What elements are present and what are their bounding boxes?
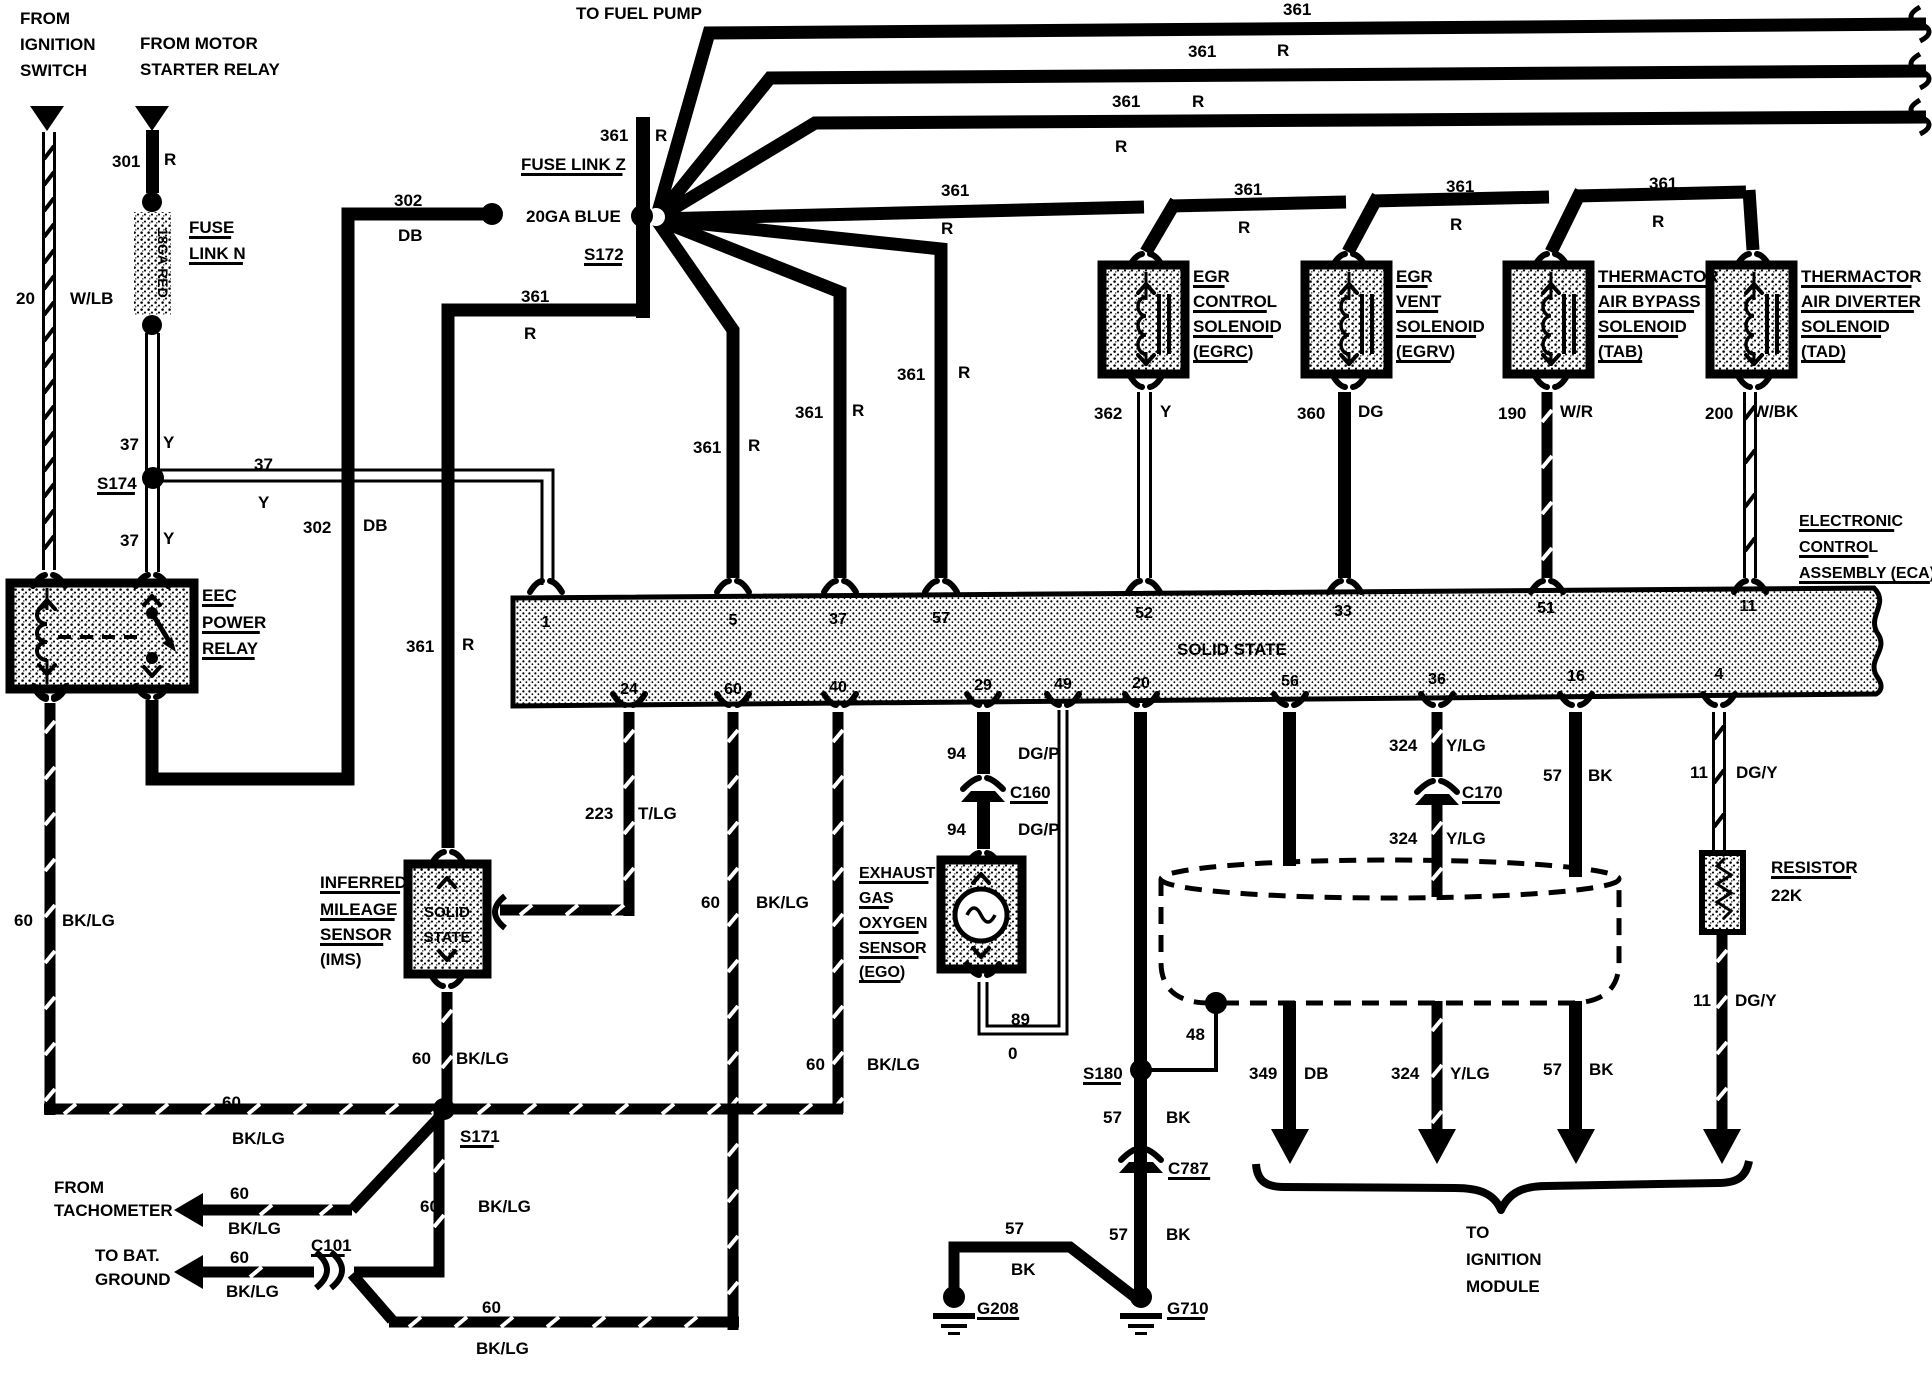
svg-text:DG: DG	[1358, 402, 1384, 421]
svg-text:361: 361	[1649, 174, 1677, 193]
svg-text:EEC: EEC	[202, 586, 237, 605]
svg-text:RESISTOR: RESISTOR	[1771, 858, 1858, 877]
svg-text:THERMACTOR: THERMACTOR	[1598, 267, 1719, 286]
svg-text:29: 29	[974, 677, 992, 694]
svg-text:SOLENOID: SOLENOID	[1801, 317, 1890, 336]
svg-text:361: 361	[406, 637, 434, 656]
svg-text:49: 49	[1054, 676, 1072, 693]
svg-text:BK/LG: BK/LG	[228, 1219, 281, 1238]
svg-text:(EGRV): (EGRV)	[1396, 342, 1455, 361]
svg-text:Y: Y	[1160, 402, 1172, 421]
svg-text:OXYGEN: OXYGEN	[859, 915, 927, 932]
svg-text:GAS: GAS	[859, 890, 894, 907]
svg-text:VENT: VENT	[1396, 292, 1442, 311]
svg-text:SOLENOID: SOLENOID	[1193, 317, 1282, 336]
svg-text:FROM MOTOR: FROM MOTOR	[140, 34, 258, 53]
svg-text:360: 360	[1297, 404, 1325, 423]
svg-text:R: R	[1192, 92, 1204, 111]
svg-text:S172: S172	[584, 245, 624, 264]
svg-text:DG/P: DG/P	[1018, 820, 1060, 839]
svg-text:37: 37	[120, 531, 139, 550]
svg-text:BK: BK	[1011, 1260, 1036, 1279]
svg-text:52: 52	[1135, 605, 1153, 622]
svg-text:BK/LG: BK/LG	[226, 1282, 279, 1301]
svg-text:SENSOR: SENSOR	[859, 940, 927, 957]
svg-text:56: 56	[1281, 673, 1299, 690]
svg-text:R: R	[1115, 137, 1127, 156]
svg-text:37: 37	[254, 455, 273, 474]
svg-text:57: 57	[1103, 1108, 1122, 1127]
svg-text:STATE: STATE	[424, 929, 471, 946]
svg-text:R: R	[958, 363, 970, 382]
svg-text:361: 361	[600, 126, 628, 145]
svg-text:361: 361	[1188, 42, 1216, 61]
svg-text:G208: G208	[977, 1299, 1019, 1318]
svg-text:W/LB: W/LB	[70, 289, 113, 308]
svg-text:DG/Y: DG/Y	[1736, 763, 1778, 782]
svg-text:60: 60	[701, 893, 720, 912]
svg-text:20: 20	[16, 289, 35, 308]
svg-text:SOLENOID: SOLENOID	[1396, 317, 1485, 336]
svg-text:1: 1	[542, 614, 551, 631]
svg-text:361: 361	[897, 365, 925, 384]
svg-text:S180: S180	[1083, 1064, 1123, 1083]
svg-text:(TAD): (TAD)	[1801, 342, 1846, 361]
svg-text:BK/LG: BK/LG	[478, 1197, 531, 1216]
svg-text:BK/LG: BK/LG	[756, 893, 809, 912]
svg-text:R: R	[1277, 41, 1289, 60]
svg-text:C101: C101	[311, 1236, 352, 1255]
svg-text:Y: Y	[163, 433, 175, 452]
svg-text:(IMS): (IMS)	[320, 950, 362, 969]
svg-text:IGNITION: IGNITION	[1466, 1250, 1542, 1269]
svg-text:SENSOR: SENSOR	[320, 925, 392, 944]
svg-text:16: 16	[1567, 668, 1585, 685]
svg-text:DB: DB	[1304, 1064, 1329, 1083]
svg-text:60: 60	[420, 1197, 439, 1216]
svg-text:361: 361	[693, 438, 721, 457]
svg-text:T/LG: T/LG	[638, 804, 677, 823]
svg-text:BK/LG: BK/LG	[867, 1055, 920, 1074]
svg-text:361: 361	[521, 287, 549, 306]
svg-text:48: 48	[1186, 1025, 1205, 1044]
svg-text:60: 60	[14, 911, 33, 930]
svg-text:GROUND: GROUND	[95, 1270, 171, 1289]
svg-text:BK/LG: BK/LG	[476, 1339, 529, 1358]
svg-text:33: 33	[1334, 603, 1352, 620]
svg-text:37: 37	[829, 611, 847, 628]
svg-text:IGNITION: IGNITION	[20, 35, 96, 54]
svg-text:LINK N: LINK N	[189, 244, 246, 263]
svg-text:40: 40	[829, 679, 847, 696]
svg-text:60: 60	[724, 681, 742, 698]
svg-text:349: 349	[1249, 1064, 1277, 1083]
svg-text:60: 60	[222, 1093, 241, 1112]
svg-text:DB: DB	[363, 516, 388, 535]
svg-text:0: 0	[1008, 1044, 1017, 1063]
svg-text:MODULE: MODULE	[1466, 1277, 1540, 1296]
svg-text:EGR: EGR	[1193, 267, 1230, 286]
svg-text:20GA BLUE: 20GA BLUE	[526, 207, 621, 226]
svg-text:60: 60	[482, 1298, 501, 1317]
svg-text:AIR DIVERTER: AIR DIVERTER	[1801, 292, 1921, 311]
svg-text:301: 301	[112, 152, 140, 171]
svg-text:C160: C160	[1010, 783, 1051, 802]
svg-text:36: 36	[1428, 671, 1446, 688]
svg-text:EXHAUST: EXHAUST	[859, 865, 936, 882]
svg-text:STARTER RELAY: STARTER RELAY	[140, 60, 280, 79]
svg-text:BK: BK	[1588, 766, 1613, 785]
svg-text:RELAY: RELAY	[202, 639, 259, 658]
svg-text:324: 324	[1389, 829, 1418, 848]
svg-text:Y/LG: Y/LG	[1446, 736, 1486, 755]
svg-text:FUSE LINK Z: FUSE LINK Z	[521, 155, 626, 174]
svg-text:324: 324	[1389, 736, 1418, 755]
svg-text:361: 361	[1446, 177, 1474, 196]
svg-text:EGR: EGR	[1396, 267, 1433, 286]
svg-text:361: 361	[1112, 92, 1140, 111]
svg-text:C787: C787	[1168, 1159, 1209, 1178]
svg-text:FROM: FROM	[54, 1178, 104, 1197]
svg-text:R: R	[1238, 218, 1250, 237]
svg-text:361: 361	[795, 403, 823, 422]
svg-text:324: 324	[1391, 1064, 1420, 1083]
svg-text:362: 362	[1094, 404, 1122, 423]
svg-text:302: 302	[303, 518, 331, 537]
svg-text:60: 60	[230, 1248, 249, 1267]
svg-text:R: R	[1652, 212, 1664, 231]
svg-text:57: 57	[1109, 1225, 1128, 1244]
svg-text:18GA RED: 18GA RED	[155, 228, 171, 298]
svg-text:89: 89	[1011, 1010, 1030, 1029]
svg-text:DG/P: DG/P	[1018, 744, 1060, 763]
svg-text:S174: S174	[97, 474, 137, 493]
svg-text:G710: G710	[1167, 1299, 1209, 1318]
svg-text:24: 24	[620, 681, 638, 698]
svg-text:TO FUEL PUMP: TO FUEL PUMP	[576, 4, 702, 23]
svg-text:DG/Y: DG/Y	[1735, 991, 1777, 1010]
svg-text:AIR BYPASS: AIR BYPASS	[1598, 292, 1701, 311]
svg-text:51: 51	[1537, 600, 1555, 617]
svg-text:57: 57	[1543, 766, 1562, 785]
svg-text:SWITCH: SWITCH	[20, 61, 87, 80]
svg-text:361: 361	[1234, 180, 1262, 199]
svg-text:TO BAT.: TO BAT.	[95, 1246, 160, 1265]
svg-text:Y: Y	[258, 493, 270, 512]
svg-text:R: R	[655, 126, 667, 145]
svg-text:W/R: W/R	[1560, 402, 1593, 421]
svg-text:57: 57	[932, 610, 950, 627]
svg-text:4: 4	[1715, 666, 1724, 683]
svg-text:BK/LG: BK/LG	[62, 911, 115, 930]
svg-text:POWER: POWER	[202, 613, 266, 632]
svg-text:Y/LG: Y/LG	[1446, 829, 1486, 848]
svg-text:200: 200	[1705, 404, 1733, 423]
svg-text:190: 190	[1498, 404, 1526, 423]
svg-text:(EGO): (EGO)	[859, 964, 905, 981]
svg-text:57: 57	[1543, 1060, 1562, 1079]
svg-text:DB: DB	[398, 226, 423, 245]
svg-text:MILEAGE: MILEAGE	[320, 900, 397, 919]
svg-text:ASSEMBLY (ECA): ASSEMBLY (ECA)	[1799, 565, 1932, 582]
svg-text:60: 60	[412, 1049, 431, 1068]
svg-text:THERMACTOR: THERMACTOR	[1801, 267, 1922, 286]
svg-text:37: 37	[120, 435, 139, 454]
svg-text:FROM: FROM	[20, 9, 70, 28]
svg-text:ELECTRONIC: ELECTRONIC	[1799, 513, 1903, 530]
svg-text:5: 5	[729, 612, 738, 629]
svg-text:11: 11	[1693, 991, 1711, 1010]
svg-text:60: 60	[230, 1184, 249, 1203]
svg-text:BK: BK	[1166, 1108, 1191, 1127]
svg-text:94: 94	[947, 744, 966, 763]
svg-text:CONTROL: CONTROL	[1193, 292, 1277, 311]
svg-text:BK/LG: BK/LG	[456, 1049, 509, 1068]
svg-text:94: 94	[947, 820, 966, 839]
svg-text:57: 57	[1005, 1219, 1024, 1238]
svg-text:R: R	[852, 401, 864, 420]
svg-text:R: R	[524, 324, 536, 343]
svg-text:(TAB): (TAB)	[1598, 342, 1643, 361]
svg-text:W/BK: W/BK	[1753, 402, 1799, 421]
svg-text:361: 361	[1283, 0, 1311, 19]
svg-text:302: 302	[394, 191, 422, 210]
svg-text:TACHOMETER: TACHOMETER	[54, 1201, 173, 1220]
svg-text:C170: C170	[1462, 783, 1503, 802]
svg-text:223: 223	[585, 804, 613, 823]
svg-text:TO: TO	[1466, 1223, 1489, 1242]
svg-text:BK: BK	[1166, 1225, 1191, 1244]
svg-text:(EGRC): (EGRC)	[1193, 342, 1253, 361]
svg-text:60: 60	[806, 1055, 825, 1074]
svg-text:CONTROL: CONTROL	[1799, 539, 1878, 556]
svg-text:22K: 22K	[1771, 886, 1803, 905]
svg-text:FUSE: FUSE	[189, 218, 234, 237]
svg-text:361: 361	[941, 181, 969, 200]
svg-text:R: R	[1450, 215, 1462, 234]
svg-text:20: 20	[1132, 675, 1150, 692]
svg-text:R: R	[462, 635, 474, 654]
svg-text:R: R	[748, 436, 760, 455]
svg-text:R: R	[941, 219, 953, 238]
svg-text:S171: S171	[460, 1127, 500, 1146]
svg-text:SOLID STATE: SOLID STATE	[1177, 640, 1287, 659]
svg-text:11: 11	[1740, 598, 1757, 615]
svg-text:SOLID: SOLID	[424, 904, 470, 921]
svg-text:SOLENOID: SOLENOID	[1598, 317, 1687, 336]
svg-text:BK: BK	[1589, 1060, 1614, 1079]
svg-text:Y: Y	[163, 529, 175, 548]
svg-text:Y/LG: Y/LG	[1450, 1064, 1490, 1083]
svg-text:INFERRED: INFERRED	[320, 873, 407, 892]
svg-text:11: 11	[1690, 763, 1708, 782]
svg-text:R: R	[164, 150, 176, 169]
svg-text:BK/LG: BK/LG	[232, 1129, 285, 1148]
